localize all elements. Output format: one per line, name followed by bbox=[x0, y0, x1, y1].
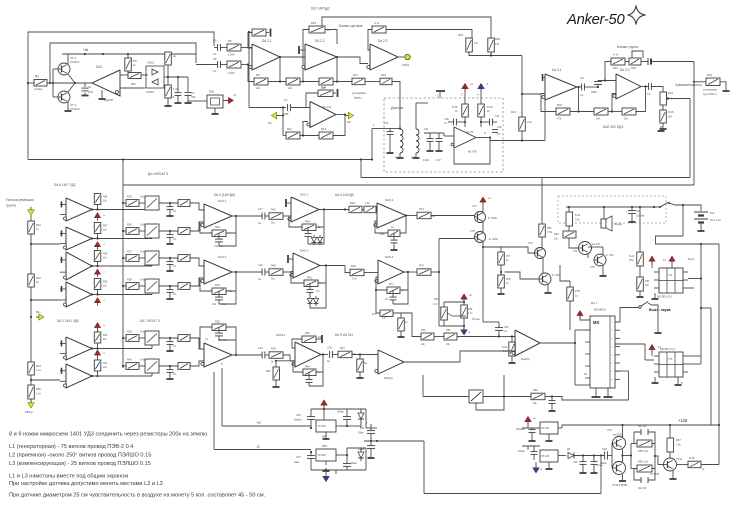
svg-text:С1Б: С1Б bbox=[444, 118, 449, 121]
svg-text:R42: R42 bbox=[554, 232, 559, 236]
svg-text:R20: R20 bbox=[495, 37, 501, 41]
resistor R19 bbox=[466, 38, 473, 52]
svg-text:VT3: VT3 bbox=[528, 241, 533, 245]
red arrow P1 bbox=[97, 218, 99, 221]
capacitor C8 bbox=[217, 44, 219, 51]
ground R62 bbox=[316, 338, 321, 340]
red arrow P6 bbox=[97, 355, 99, 358]
svg-text:DA 2.4: DA 2.4 bbox=[322, 105, 331, 109]
svg-text:8м: 8м bbox=[364, 362, 367, 365]
switch sound bbox=[639, 306, 642, 309]
ground L1 bbox=[399, 153, 401, 155]
red arrow VT7 bbox=[482, 202, 484, 205]
wire sensor feed riser bbox=[371, 129, 373, 160]
svg-text:C9: C9 bbox=[580, 76, 584, 80]
ground top sensor bbox=[439, 92, 441, 98]
resistor R64 feedback DA5.3 bbox=[303, 369, 316, 376]
svg-text:DA 6 1407 УД2: DA 6 1407 УД2 bbox=[54, 183, 76, 187]
wire MS loop bottom bbox=[556, 397, 629, 401]
op-amp DA2.2 bbox=[305, 44, 337, 70]
ground C2 bbox=[187, 100, 189, 103]
svg-text:C3: C3 bbox=[171, 95, 175, 99]
red arrow P5 bbox=[97, 328, 99, 331]
wire switch feed bbox=[422, 375, 424, 397]
ground L2 bbox=[415, 153, 417, 155]
capacitor C25 bbox=[307, 289, 314, 291]
wire fb row 2 bbox=[608, 111, 622, 113]
wire R1 to transistors bbox=[47, 82, 92, 84]
svg-text:R55: R55 bbox=[36, 387, 41, 391]
wire from below bbox=[600, 456, 602, 494]
wire DA6.4 out bbox=[404, 271, 417, 273]
op-amp DA5.1 bbox=[291, 197, 319, 222]
svg-text:Nв С40: Nв С40 bbox=[638, 487, 647, 490]
wire DA2.4 inverting bbox=[303, 122, 308, 136]
capacitor C47 bbox=[310, 452, 312, 456]
wire VT9 collector to rail bbox=[622, 425, 624, 438]
wire DA2.2 top loop bbox=[303, 30, 309, 64]
ground quartz bbox=[214, 108, 216, 111]
red arrow IC1 b bbox=[671, 261, 673, 264]
wire DA5.2 out bbox=[320, 265, 345, 267]
red arrow quartz bbox=[225, 100, 228, 102]
capacitor C12 bbox=[438, 133, 440, 139]
red arrow MS bbox=[579, 316, 581, 319]
wire left bus bbox=[122, 160, 124, 369]
svg-text:кт 3102: кт 3102 bbox=[489, 237, 498, 241]
ground C63 bbox=[370, 455, 372, 458]
resistor R22 bbox=[556, 108, 570, 115]
red arrow P2 bbox=[97, 247, 99, 250]
resistor R16 DA2.4 top bbox=[318, 90, 333, 97]
red arrow porog bbox=[463, 299, 465, 302]
wire R17 R18 bbox=[365, 81, 380, 83]
svg-text:С36: С36 bbox=[573, 461, 578, 464]
wire R76 bbox=[541, 237, 543, 248]
svg-text:С14: С14 bbox=[495, 115, 500, 118]
capacitor C13 bbox=[448, 121, 454, 123]
resistor R46b bbox=[688, 461, 701, 468]
inductor L2 bbox=[415, 126, 417, 129]
wire balans to DA3.3 bbox=[625, 61, 629, 63]
IC U7 561LE-1 bbox=[651, 262, 653, 269]
svg-text:0.1: 0.1 bbox=[213, 52, 217, 56]
wire R28 bottom bbox=[464, 117, 466, 127]
svg-text:R77: R77 bbox=[506, 255, 511, 258]
svg-text:С17: С17 bbox=[258, 207, 263, 211]
wire diode block to R4 bbox=[164, 76, 168, 78]
resistor R70 bbox=[417, 269, 431, 276]
svg-text:4.7к: 4.7к bbox=[613, 53, 619, 57]
svg-text:R54: R54 bbox=[36, 364, 41, 368]
svg-text:1000мк: 1000мк bbox=[636, 215, 645, 218]
ground DA5.2 plus bbox=[289, 258, 293, 260]
svg-text:У7б: У7б bbox=[668, 358, 673, 361]
svg-text:С24: С24 bbox=[258, 346, 263, 350]
svg-text:-Е: -Е bbox=[256, 444, 260, 449]
svg-text:Da 2.3: Da 2.3 bbox=[378, 39, 388, 43]
wire chain 2 bbox=[30, 234, 32, 274]
svg-text:Порог: Порог bbox=[472, 317, 480, 321]
wire R30 bottom bbox=[480, 117, 482, 127]
red arrow IC1 a bbox=[651, 261, 653, 264]
wire U1 out bbox=[92, 209, 152, 211]
inductor L1 bbox=[399, 128, 401, 131]
resistor R48 bbox=[269, 269, 283, 276]
svg-text:R8: R8 bbox=[256, 73, 260, 77]
svg-text:R61: R61 bbox=[307, 276, 312, 280]
svg-text:200мк: 200мк bbox=[337, 411, 345, 414]
ground CS5 bbox=[169, 348, 171, 351]
resistor R31 top right bbox=[706, 78, 720, 86]
wire switch sound bbox=[615, 308, 639, 323]
wire yellow arrow node bbox=[277, 115, 283, 117]
yellow arrow 9kHz bbox=[345, 115, 348, 117]
transistor VT8 bbox=[475, 232, 486, 243]
resistor R59 bbox=[269, 352, 283, 359]
wire VR2 gnd bbox=[325, 432, 327, 436]
capacitor C48 bbox=[346, 461, 348, 464]
ground C37 bbox=[593, 470, 595, 473]
svg-text:R36: R36 bbox=[127, 223, 132, 227]
svg-text:0.97: 0.97 bbox=[436, 159, 441, 162]
svg-text:Полоса режекция: Полоса режекция bbox=[6, 198, 34, 202]
jack balans bbox=[641, 61, 648, 63]
svg-text:R17: R17 bbox=[353, 73, 358, 77]
resistor R50b bbox=[531, 393, 545, 400]
wire rail C bbox=[123, 184, 694, 186]
transistor VT2 bbox=[58, 91, 70, 103]
resistor R4 bbox=[167, 52, 169, 54]
svg-text:КТБ: КТБ bbox=[575, 289, 580, 293]
resistor R20 bbox=[488, 38, 495, 52]
svg-text:2.2мм: 2.2мм bbox=[34, 87, 42, 91]
wire R38 left bbox=[393, 313, 421, 337]
capacitor C10 inline bbox=[597, 84, 599, 87]
svg-text:20мкф: 20мкф bbox=[294, 419, 301, 422]
wire DA2.1 plus input loop bbox=[248, 33, 252, 49]
wire battery bottom bbox=[700, 223, 702, 229]
wire C11 row to op-amp bbox=[443, 133, 445, 136]
red arrow VR1 bbox=[527, 422, 529, 425]
wire VT bases bbox=[52, 69, 54, 97]
svg-text:390: 390 bbox=[191, 95, 196, 99]
capacitor C36 filter bbox=[582, 456, 584, 462]
svg-text:R 46: R 46 bbox=[689, 456, 695, 460]
wire DA6.2 feedback bbox=[375, 221, 388, 233]
wire to quartz bbox=[188, 100, 196, 102]
ground C3 bbox=[177, 100, 179, 103]
wire R31 left bbox=[694, 81, 706, 83]
op-amp U4 left bank bbox=[66, 282, 92, 307]
resistor RS2b bbox=[178, 228, 190, 235]
ground DA2.2 plus bbox=[300, 49, 305, 51]
wire to T2 input bbox=[31, 243, 60, 245]
svg-text:R52: R52 bbox=[36, 276, 41, 280]
wire chain 1 bbox=[30, 215, 32, 221]
svg-text:2М: 2М bbox=[596, 117, 600, 121]
wire DA5.1 out bbox=[319, 209, 349, 211]
svg-text:Dn2 140Туд2: Dn2 140Туд2 bbox=[311, 7, 330, 11]
resistor RP4 bbox=[94, 279, 101, 290]
svg-text:R46: R46 bbox=[350, 201, 355, 205]
resistor RS1 bbox=[123, 202, 126, 204]
sensor dashed box bbox=[384, 98, 503, 172]
svg-text:1м: 1м bbox=[258, 222, 261, 225]
svg-text:R56: R56 bbox=[547, 227, 552, 230]
resistor R11 bbox=[286, 132, 300, 139]
svg-text:R 28: R 28 bbox=[452, 105, 458, 109]
svg-text:R24: R24 bbox=[613, 66, 618, 70]
capacitor C46 bbox=[310, 409, 312, 417]
wire VR4 out bbox=[558, 455, 566, 457]
resistor R63 bbox=[273, 367, 280, 380]
wire feedback row 1 bbox=[268, 81, 286, 83]
capacitor C62 electrolytic bbox=[370, 424, 372, 431]
wire row 2 bbox=[139, 230, 145, 232]
ground battery bbox=[700, 228, 702, 231]
resistor R80 bbox=[568, 207, 570, 212]
svg-text:R51: R51 bbox=[36, 223, 41, 227]
resistor R15 feedback top bbox=[309, 26, 325, 33]
svg-text:+6в: +6в bbox=[83, 48, 89, 52]
resistor RP6 bbox=[97, 355, 99, 360]
svg-text:Da4(3): Da4(3) bbox=[521, 357, 530, 361]
svg-text:При настройке датчика допустим: При настройке датчика допустимо менять м… bbox=[9, 480, 163, 487]
wire VT7 collector bbox=[482, 202, 484, 212]
svg-text:VT10 КТ815Г: VT10 КТ815Г bbox=[612, 483, 628, 487]
svg-text:R38: R38 bbox=[127, 278, 132, 282]
wire VT8 base bbox=[439, 238, 475, 240]
wire feedback row 3 bbox=[333, 81, 352, 83]
resistor RS1b bbox=[178, 200, 190, 207]
svg-text:C47: C47 bbox=[296, 455, 301, 459]
switch box S3 bbox=[145, 251, 159, 265]
svg-text:DA5.1: DA5.1 bbox=[300, 193, 309, 197]
resistor R9 bbox=[165, 85, 172, 98]
capacitor C15 bbox=[648, 83, 650, 90]
svg-text:C8: C8 bbox=[213, 39, 217, 43]
wire porog top bbox=[463, 299, 465, 305]
svg-text:L1 (генераторная) - 75 витков: L1 (генераторная) - 75 витков провод ПЭВ… bbox=[9, 444, 133, 450]
wire VT5 collector bbox=[602, 247, 604, 255]
wire to VT11 base bbox=[655, 456, 664, 465]
resistor RS6 bbox=[123, 365, 126, 367]
wire VT7 VT8 join bbox=[482, 222, 484, 233]
wire caps branch bbox=[168, 76, 188, 78]
resistor R29 pot bbox=[660, 110, 667, 123]
svg-text:R63: R63 bbox=[434, 298, 439, 301]
wire row to sensor drive bbox=[352, 81, 356, 83]
wire to T6 input bbox=[31, 379, 60, 381]
svg-text:R49: R49 bbox=[351, 264, 356, 268]
svg-text:КТ3102: КТ3102 bbox=[70, 107, 80, 111]
wire input bbox=[28, 82, 34, 84]
ground DA1 bbox=[101, 90, 103, 96]
resistor R42c bbox=[269, 213, 283, 220]
wire DA5.3 feedback bbox=[293, 361, 303, 372]
wire DA6.2 out bbox=[406, 215, 417, 217]
wire R81 to VT4 bbox=[569, 238, 578, 248]
wire VT8 emitter down bbox=[482, 242, 484, 248]
svg-text:C2: C2 bbox=[191, 91, 195, 95]
wire right bus x694 bbox=[693, 62, 695, 186]
wire R67 to DA6.1 bbox=[352, 354, 378, 356]
wire porog wiper bbox=[448, 313, 467, 316]
svg-text:2.2М*: 2.2М* bbox=[228, 71, 235, 75]
wire rows to DA4.3 bbox=[190, 338, 204, 349]
switch box S2 bbox=[145, 224, 159, 238]
capacitor C17 bbox=[261, 213, 263, 220]
resistor R24 bbox=[611, 58, 625, 65]
wire R21 bottom bbox=[521, 131, 523, 141]
resistor R54 bbox=[28, 362, 35, 375]
svg-text:4.7к: 4.7к bbox=[374, 21, 380, 25]
capacitor CS5 bbox=[169, 338, 171, 342]
capacitor CS3 bbox=[169, 258, 171, 262]
relay R58 C38 bbox=[631, 443, 637, 445]
wire feedback row 2 bbox=[300, 81, 319, 83]
wire R77 R78 bbox=[500, 265, 502, 275]
svg-text:VT5: VT5 bbox=[590, 265, 595, 269]
svg-text:L2 (приемная) -около 250° витк: L2 (приемная) -около 250° витков провод … bbox=[9, 453, 151, 459]
resistor R44a feedback DA4.1 bbox=[212, 230, 226, 237]
resistor R14 DA2.3 top bbox=[372, 26, 386, 33]
op-amp DA6.4 bbox=[378, 260, 404, 284]
svg-text:20мк: 20мк bbox=[294, 461, 300, 464]
svg-text:R21: R21 bbox=[511, 110, 517, 114]
wire DA5.2 feedback bbox=[291, 272, 304, 284]
red arrow P4 bbox=[97, 303, 99, 306]
resistor R82 bbox=[639, 207, 641, 252]
capacitor C11 bbox=[424, 132, 444, 134]
ground C11 bbox=[429, 148, 431, 151]
diode VD10 bbox=[361, 408, 366, 410]
resistor R23 bbox=[594, 108, 608, 115]
svg-text:R74: R74 bbox=[419, 207, 424, 211]
svg-text:R64: R64 bbox=[645, 280, 650, 283]
wire R14 to R19 bbox=[386, 30, 472, 39]
svg-text:R07: R07 bbox=[103, 225, 108, 228]
resistor R67b bbox=[669, 425, 671, 438]
capacitor C10 sensor bbox=[388, 128, 400, 130]
capacitor C3 bbox=[175, 92, 182, 94]
op-amp DA1 oscillator bbox=[92, 70, 120, 96]
resistor R56f bbox=[388, 230, 400, 237]
op-amp U2 left bank bbox=[66, 227, 92, 250]
diode VD7 pair bbox=[307, 298, 312, 303]
resistor R27 pot bbox=[660, 92, 667, 105]
ground C50 bbox=[531, 438, 533, 441]
svg-text:R31: R31 bbox=[707, 73, 713, 77]
wire VR1 in bbox=[527, 422, 529, 428]
resistor R81 pot bbox=[563, 231, 576, 238]
svg-text:DA5.2: DA5.2 bbox=[300, 249, 309, 253]
wire VR3 out bbox=[336, 454, 347, 456]
red arrow P3 bbox=[97, 274, 99, 277]
wire inner top bbox=[50, 43, 196, 83]
wire MS arrow bbox=[580, 316, 590, 320]
svg-text:180гр.: 180гр. bbox=[25, 410, 34, 414]
svg-text:DA 1 1401 УД4: DA 1 1401 УД4 bbox=[57, 319, 79, 323]
ground R75 bbox=[400, 331, 402, 334]
wire to C7 bbox=[249, 107, 286, 109]
svg-text:R40: R40 bbox=[127, 358, 132, 362]
wire emitters join bbox=[68, 74, 75, 83]
wire R74 to VT7 bbox=[431, 215, 475, 217]
wire R80 R81 bbox=[568, 226, 570, 231]
capacitor C23 bbox=[305, 233, 312, 235]
svg-text:9кГ: 9кГ bbox=[347, 120, 352, 124]
ground CS6 bbox=[169, 376, 171, 379]
svg-text:C46: C46 bbox=[296, 413, 301, 417]
red arrow VR2 bbox=[323, 405, 325, 408]
svg-text:мп 457: мп 457 bbox=[592, 242, 601, 246]
svg-text:DA4.2: DA4.2 bbox=[218, 255, 227, 259]
diode VD9 bbox=[360, 409, 362, 412]
svg-text:Da 3.1: Da 3.1 bbox=[552, 68, 562, 72]
svg-text:У7а: У7а bbox=[668, 274, 673, 277]
switch box S4 bbox=[145, 279, 159, 293]
resistor RS5b bbox=[178, 335, 190, 342]
resistor R79 left of MS bbox=[567, 287, 574, 301]
wire DA3.1 out bbox=[577, 86, 581, 88]
wire R73 bbox=[376, 290, 380, 313]
resistor R10 bbox=[286, 78, 300, 85]
transistor VT11 bbox=[664, 458, 677, 471]
svg-text:BQ1: BQ1 bbox=[209, 90, 215, 94]
wire right vertical v2 bbox=[710, 308, 712, 425]
svg-text:С11: С11 bbox=[424, 128, 429, 131]
ground VT11 bbox=[672, 470, 674, 476]
op-amp DA6.1 bbox=[378, 350, 404, 374]
svg-text:4.822: 4.822 bbox=[423, 159, 430, 162]
capacitor C28 bbox=[215, 332, 223, 334]
wire audio out rail bbox=[574, 455, 605, 457]
purple arrow VR4 bbox=[535, 462, 537, 466]
wire comparator out bbox=[540, 342, 575, 344]
svg-text:Датчик: Датчик bbox=[391, 106, 403, 110]
svg-text:R50: R50 bbox=[215, 320, 220, 324]
svg-text:DA 2.1: DA 2.1 bbox=[262, 39, 272, 43]
transistor VT7 bbox=[475, 212, 486, 223]
svg-text:561ЛБ (У)-2: 561ЛБ (У)-2 bbox=[660, 347, 676, 351]
svg-text:276/9: 276/9 bbox=[402, 63, 409, 67]
svg-text:200мк: 200мк bbox=[350, 462, 358, 465]
wire rows to DA4.1 bbox=[190, 203, 204, 210]
wire DA4.3 feedback bbox=[200, 327, 212, 349]
wire DA4.3 out bbox=[232, 354, 262, 356]
svg-text:R09: R09 bbox=[103, 281, 108, 284]
svg-text:200мкф: 200мкф bbox=[516, 428, 525, 431]
wire switch loop bbox=[476, 375, 504, 410]
svg-text:0.01: 0.01 bbox=[88, 90, 94, 94]
wire right loop x701 bbox=[700, 244, 702, 364]
svg-text:R67: R67 bbox=[676, 438, 681, 442]
resistor R26 bbox=[629, 58, 641, 65]
resistor R49 bbox=[345, 266, 350, 273]
wire DA1 output top bbox=[120, 74, 128, 76]
wire DA4.1 out bbox=[232, 215, 262, 217]
op-amp DA2.4 bbox=[310, 102, 336, 128]
wire to diodes bbox=[141, 74, 148, 76]
svg-text:R35: R35 bbox=[127, 195, 132, 199]
resistor R38 pot bbox=[421, 333, 434, 340]
diode VD12 bbox=[568, 453, 574, 459]
svg-text:установка: установка bbox=[703, 88, 717, 92]
svg-text:2М: 2М bbox=[624, 117, 628, 121]
svg-text:фазы: фазы bbox=[354, 96, 362, 100]
